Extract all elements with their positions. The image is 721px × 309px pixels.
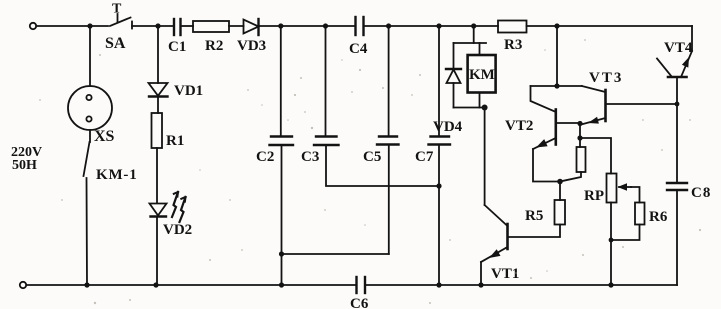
node junction bottom rail at C7 [436, 282, 441, 287]
svg-text:R5: R5 [525, 208, 543, 224]
wire C2 down to junction [281, 145, 283, 285]
svg-text:VT3: VT3 [589, 70, 623, 86]
svg-text:R1: R1 [166, 133, 184, 149]
svg-text:SA: SA [105, 35, 126, 52]
wire emitter node down [579, 124, 581, 139]
wire C3 bottom to C7 chain [326, 145, 439, 186]
wire C7 down to bottom rail [438, 145, 440, 286]
wire R1 to VD2 [156, 148, 158, 203]
svg-text:T: T [112, 2, 122, 17]
node junction feedback split [577, 135, 582, 140]
wire collector bus [531, 85, 582, 87]
svg-text:R3: R3 [504, 37, 522, 53]
resistor R1 [152, 113, 185, 149]
switch SA with button T [105, 2, 132, 53]
svg-text:RP: RP [584, 188, 604, 204]
wire relay top node bar [454, 42, 487, 44]
transistor VT4 [657, 26, 693, 183]
svg-text:KM-1: KM-1 [96, 167, 138, 183]
wire SA to C1 [132, 25, 174, 27]
capacitor C2 [256, 137, 293, 166]
svg-text:C7: C7 [415, 149, 434, 165]
svg-text:VD1: VD1 [174, 83, 203, 99]
capacitor C6 (series on bottom rail) [350, 277, 369, 309]
svg-text:50H: 50H [12, 158, 37, 173]
node junction C2/C5 link [279, 251, 284, 256]
node junction VT3 emitter / VT2 base [577, 121, 582, 126]
wire relay node to VT1 collector [484, 108, 486, 206]
transistor VT1 [481, 205, 519, 285]
capacitor C8 [667, 183, 711, 285]
svg-text:VT1: VT1 [491, 266, 519, 282]
svg-text:C5: C5 [363, 149, 381, 165]
wire relay bottom node bar [454, 107, 485, 109]
wire darlington collector riser [556, 26, 558, 86]
relay coil KM [468, 43, 496, 108]
node junction bottom rail at VT1 emitter [478, 282, 483, 287]
wire C3 branch down [325, 26, 327, 136]
wire VD1 branch down [157, 26, 159, 83]
node junction collectors [554, 83, 559, 88]
LED VD2 [150, 192, 193, 238]
wire VD1 to R1 [157, 97, 159, 114]
node junction bottom rail at KM-1 [84, 282, 89, 287]
potentiometer RP [584, 174, 640, 286]
node junction C3/C7 link [436, 183, 441, 188]
wire top rail: terminal to SA [36, 25, 108, 27]
svg-text:VD2: VD2 [163, 222, 192, 238]
node junction J1 emitter/R5 [557, 179, 563, 185]
node junction on top rail at XS branch [87, 23, 92, 28]
svg-text:VD3: VD3 [237, 38, 266, 54]
svg-text:R6: R6 [649, 209, 668, 225]
wire bottom rail right [365, 284, 677, 286]
svg-text:KM: KM [469, 67, 495, 83]
node junction top rail at C2 [278, 23, 283, 28]
svg-text:VT4: VT4 [664, 40, 693, 56]
svg-text:C4: C4 [349, 41, 368, 57]
node junction top rail at C5 [386, 23, 391, 28]
svg-text:XS: XS [94, 128, 115, 145]
transistor VT3 [581, 70, 677, 125]
capacitor C5 [363, 137, 399, 166]
node junction RP/R6 return [609, 238, 614, 243]
capacitor C1 (series) [168, 19, 186, 55]
label 220V 50H mains [11, 145, 42, 173]
svg-text:R2: R2 [205, 38, 223, 54]
wire bottom rail left [26, 284, 356, 286]
wire XS branch down [89, 26, 91, 86]
node junction top rail at C7 [436, 23, 441, 28]
node junction top rail at C3 [323, 23, 328, 28]
capacitor C4 (series on rail) [349, 17, 368, 57]
svg-text:C8: C8 [691, 185, 711, 201]
terminal top-left input [30, 23, 36, 29]
node junction top rail at VD1 branch [155, 23, 160, 28]
node junction bottom rail at RP [608, 282, 613, 287]
svg-text:C2: C2 [256, 149, 274, 165]
resistor R6 [611, 203, 668, 241]
wire C4 to R3 [364, 25, 499, 27]
resistor R3 (series on rail) [498, 21, 527, 54]
wire C5 branch down [388, 26, 390, 136]
svg-text:VT2: VT2 [505, 118, 533, 134]
resistor R4 (unlabeled) [560, 138, 586, 182]
terminal bottom-left [20, 282, 26, 288]
socket XS [68, 86, 115, 145]
capacitor C3 [301, 137, 339, 166]
wire relay branch down [473, 26, 475, 43]
wire VD3 to C4 [259, 25, 356, 27]
svg-text:C3: C3 [301, 149, 319, 165]
node junction relay bottom [482, 105, 488, 111]
svg-text:C6: C6 [350, 296, 369, 309]
resistor R2 [193, 21, 229, 54]
wire R2 to VD3 [229, 25, 244, 27]
wire R3 to VT4 corner [527, 25, 693, 27]
wire C2 branch down [280, 26, 282, 136]
diode VD3 [237, 19, 266, 54]
node junction bottom rail at VD2 [153, 282, 158, 287]
diode VD4 [433, 43, 463, 135]
transistor VT2 [505, 86, 580, 182]
wire VD2 to bottom rail [156, 217, 158, 286]
node junction VT3/VT4 base / C8 [675, 102, 680, 107]
wire C7 branch down [438, 26, 440, 136]
wire link C2 to C5 bottom [282, 253, 389, 255]
capacitor C7 [415, 137, 450, 166]
wire C5 down to link [388, 145, 390, 255]
wire node to RP top [580, 138, 611, 174]
wire XS to KM-1 [89, 130, 91, 142]
switch KM-1 (relay contact) [84, 142, 138, 285]
diode VD1 [149, 83, 204, 99]
node junction bottom rail at C2 [279, 282, 284, 287]
resistor R5 [508, 182, 566, 238]
node junction top rail at relay branch [471, 23, 476, 28]
node junction top rail at darlington [554, 23, 559, 28]
svg-text:C1: C1 [168, 39, 186, 55]
svg-text:VD4: VD4 [433, 119, 463, 135]
wire C1 to R2 [181, 25, 194, 27]
